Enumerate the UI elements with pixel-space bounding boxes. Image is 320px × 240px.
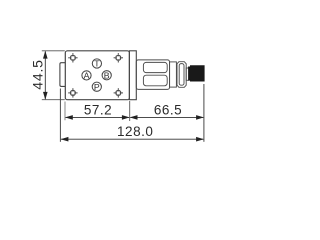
port T — [92, 59, 101, 69]
mounting screw bottom-left — [68, 88, 77, 97]
dimension 44.5 extension line top — [42, 50, 65, 52]
dimension 128.0 arrow right — [196, 137, 204, 142]
mounting screw top-left — [68, 53, 77, 62]
mounting flange (side) — [129, 51, 136, 100]
extension line below block right — [129, 101, 131, 121]
dimension 66.5 line — [130, 116, 203, 118]
svg-text:T: T — [94, 59, 100, 69]
dimension 44.5 line — [44, 51, 46, 99]
svg-text:44.5: 44.5 — [30, 59, 46, 89]
valve body block (top view) — [65, 51, 129, 100]
extension line right of knob — [203, 84, 205, 142]
svg-text:P: P — [94, 82, 100, 92]
dimension 57.2 arrow left — [65, 115, 73, 120]
hex flat lower — [143, 75, 167, 86]
port P — [92, 82, 101, 92]
hex flat upper — [143, 62, 167, 72]
dimension 128.0 arrow left — [61, 137, 69, 142]
svg-text:128.0: 128.0 — [117, 124, 153, 139]
dimension 44.5 arrow down — [43, 92, 48, 100]
dimension 57.2 arrow right — [122, 115, 130, 120]
svg-text:A: A — [84, 71, 90, 81]
dimension 44.5 arrow up — [43, 51, 48, 59]
locknut inner face — [179, 64, 184, 86]
mounting screw top-right — [114, 53, 123, 62]
extension line below tab — [59, 89, 61, 142]
screw stem — [186, 68, 189, 80]
mounting screw bottom-right — [114, 88, 123, 97]
svg-text:57.2: 57.2 — [84, 102, 112, 117]
locknut — [177, 62, 186, 88]
svg-text:B: B — [104, 70, 110, 80]
extension line below block left — [64, 102, 66, 121]
left locating tab — [60, 63, 65, 87]
dimension 66.5 arrow left — [130, 115, 138, 120]
dimension 44.5 extension line bottom — [42, 99, 65, 101]
port A — [82, 71, 91, 81]
dimension 128.0 line — [61, 138, 203, 140]
dimension 57.2 line — [66, 116, 130, 118]
cartridge hex body — [136, 60, 169, 90]
svg-text:66.5: 66.5 — [154, 102, 182, 117]
dimension 66.5 arrow right — [196, 115, 204, 120]
port B — [102, 70, 111, 80]
adjustment knob (black) — [189, 66, 205, 81]
washer — [170, 62, 177, 87]
